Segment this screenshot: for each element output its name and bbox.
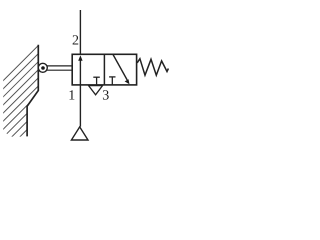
right box exhaust arrow 2 to 3 <box>113 55 127 81</box>
wire port 2 line <box>79 10 81 54</box>
left box blocked port 3 (T) <box>93 76 100 78</box>
roller <box>38 63 47 72</box>
wall (cam) outline <box>27 45 38 137</box>
wall hatching <box>0 41 43 196</box>
supply triangle (pressure source) <box>71 127 88 140</box>
spring return <box>137 59 168 75</box>
stem (plunger) <box>47 65 73 67</box>
left box flow arrow 1 to 2 <box>79 60 81 85</box>
wire port 1 line <box>79 85 81 127</box>
exhaust triangle port 3 <box>89 86 103 95</box>
valve body box <box>72 54 136 85</box>
svg-text:2: 2 <box>72 34 79 49</box>
box divider <box>103 54 105 85</box>
right box blocked port 1 (T) <box>109 76 115 78</box>
roller pivot dot <box>41 66 45 70</box>
svg-text:1: 1 <box>68 89 75 104</box>
svg-text:3: 3 <box>102 89 109 104</box>
